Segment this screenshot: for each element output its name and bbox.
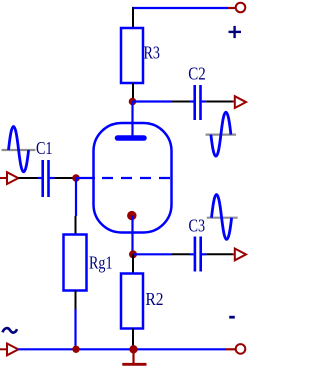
wire R2 bottom lead black bbox=[132, 329, 134, 350]
wire C3 to output black bbox=[206, 253, 232, 255]
svg-text:R3: R3 bbox=[144, 43, 161, 63]
node ground rail junction bbox=[129, 345, 137, 353]
label ~ (tilde) bbox=[3, 328, 18, 332]
wire anode row black bbox=[172, 101, 190, 103]
wire Rg1 to rail blue bbox=[74, 309, 76, 349]
ground lead bbox=[132, 349, 134, 364]
node cathode junction bbox=[129, 250, 137, 258]
waveform axis output top (gray) bbox=[206, 134, 237, 136]
waveform sine output top (inverted) bbox=[211, 112, 231, 156]
terminal circle V+ bbox=[236, 3, 246, 13]
wire C1 to grid node black bbox=[55, 177, 77, 179]
wire cathode row black bbox=[172, 253, 190, 255]
svg-text:R2: R2 bbox=[146, 289, 164, 309]
wire cathode row blue bbox=[133, 253, 172, 255]
waveform axis input (gray) bbox=[2, 149, 36, 151]
svg-text:C2: C2 bbox=[188, 64, 206, 84]
wire R3 bottom lead black bbox=[132, 83, 134, 99]
capacitor C3 bbox=[190, 237, 207, 272]
wire grid lead blue bbox=[76, 177, 95, 179]
resistor R3 bbox=[121, 28, 143, 83]
terminal triangle input top bbox=[7, 172, 18, 184]
terminal triangle output bottom bbox=[235, 249, 246, 261]
waveform sine input bbox=[9, 127, 29, 172]
grid dashed line bbox=[102, 177, 171, 179]
wire C2 to output black bbox=[206, 101, 232, 103]
svg-text:Rg1: Rg1 bbox=[89, 253, 113, 273]
wire bottom rail blue bbox=[18, 348, 226, 350]
tube envelope U1 bbox=[94, 123, 172, 233]
wire input black bbox=[18, 177, 37, 179]
terminal circle V- bbox=[236, 344, 246, 354]
terminal triangle output top bbox=[235, 96, 246, 108]
wire R2 top lead black bbox=[132, 254, 134, 273]
wire top rail red stub bbox=[228, 7, 236, 9]
resistor Rg1 bbox=[64, 235, 87, 291]
node grid junction bbox=[72, 174, 80, 182]
wire Rg1 bottom lead black bbox=[75, 291, 77, 310]
ground bar bbox=[122, 363, 146, 366]
wire input red stub bbox=[0, 177, 7, 179]
node cathode dot bbox=[127, 211, 136, 220]
wire Rg1 top lead black bbox=[75, 216, 77, 234]
wire anode row blue bbox=[133, 100, 173, 102]
wire bottom rail red stub bbox=[226, 348, 236, 350]
wire R3 top lead black bbox=[132, 7, 134, 28]
wire cathode lead blue bbox=[131, 216, 133, 255]
svg-text:C3: C3 bbox=[189, 216, 206, 236]
wire top rail blue bbox=[132, 7, 228, 9]
terminal triangle input bottom bbox=[7, 344, 18, 356]
node Rg1 rail junction bbox=[72, 346, 79, 353]
label - (minus) bbox=[229, 316, 235, 319]
svg-text:C1: C1 bbox=[36, 138, 53, 158]
wire bottom input red stub bbox=[0, 348, 7, 350]
label + (plus) bbox=[229, 26, 242, 38]
anode plate bar bbox=[118, 135, 145, 141]
wire grid node down blue bbox=[75, 178, 77, 216]
waveform axis output bottom (gray) bbox=[207, 217, 238, 219]
wire output red stub bbox=[233, 101, 235, 103]
wire output2 red stub bbox=[233, 253, 235, 255]
wire anode lead blue bbox=[131, 102, 133, 138]
resistor R2 bbox=[121, 274, 143, 329]
waveform sine output bottom bbox=[212, 195, 232, 240]
capacitor C1 bbox=[38, 160, 55, 197]
capacitor C2 bbox=[190, 85, 207, 120]
node anode junction bbox=[129, 98, 137, 106]
